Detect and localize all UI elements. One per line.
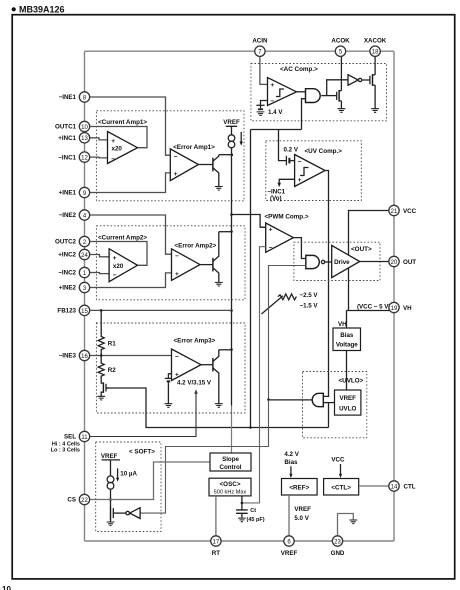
wire VREF terminal bar [226,126,237,135]
svg-text:<Error Amp1>: <Error Amp1> [173,144,215,151]
wire AND second input from UV net [302,99,306,130]
wire UV net feed horizontal [251,129,302,131]
wire XACOK drain [374,56,376,75]
pin 13 +INC1 [58,133,89,143]
op-amp Error Amp2 [172,249,201,281]
pin 8 -INE1 [59,92,90,102]
block REF [282,479,318,496]
resistor R2 [98,356,116,382]
wire Q1 collector to FB node [219,154,232,156]
svg-text:+INC1: +INC1 [58,135,76,142]
op-amp Error Amp1 [170,149,198,181]
svg-text:<OSC>: <OSC> [220,481,241,488]
wire PWM output to NAND [293,238,305,259]
svg-text:Voltage: Voltage [336,342,358,349]
ground Q3 emitter [215,404,223,408]
svg-text:UVLO: UVLO [339,405,356,412]
svg-text:22: 22 [81,498,88,504]
svg-text:(VCC − 5 V): (VCC − 5 V) [357,304,391,311]
pin 9 +INE1 [59,187,90,197]
wire Drive output to OUT pin [360,261,390,263]
wire SEL select arrow [90,393,196,436]
wire pin rail left [84,51,86,541]
svg-text:19: 19 [391,306,398,312]
pin 7 ACIN [252,38,268,57]
resistor slope compensation [262,294,297,314]
wire ramp to PWM - input [242,247,266,503]
wire comparator - input [261,101,268,105]
inverter soft [126,508,140,519]
svg-text:<Error Amp2>: <Error Amp2> [175,242,217,249]
comparator AC Comp [268,78,297,106]
node Q1 collector junction [231,153,234,156]
comparator PWM Comp [266,223,294,252]
svg-text:<Current Amp1>: <Current Amp1> [98,119,147,126]
svg-text:ACOK: ACOK [331,38,350,45]
dashed box Error Amp3 [96,323,245,413]
node UV net junction [249,426,252,429]
svg-text:CTL: CTL [404,483,416,490]
svg-text:−1.5 V: −1.5 V [300,302,319,309]
svg-text:VCC: VCC [331,456,345,463]
ground soft fet [107,522,115,526]
svg-text:1.4 V: 1.4 V [268,109,283,116]
svg-text:<PWM Comp.>: <PWM Comp.> [265,214,309,221]
block OSC [209,478,251,496]
svg-text:15: 15 [81,309,88,315]
svg-text:500 kHz Max: 500 kHz Max [214,490,247,496]
svg-text:ACIN: ACIN [252,38,268,45]
wire VH line to pin 19 [346,310,390,312]
inverter AC [348,75,370,86]
block VREF UVLO [335,390,361,415]
pin 22 CS [67,494,89,504]
svg-text:<REF>: <REF> [289,485,309,492]
buffer Drive [332,245,360,277]
svg-text:VCC: VCC [403,208,417,215]
dashed box UV Comp [266,141,362,201]
arrow -INC1 (Vo) [277,183,281,187]
svg-text:<UV Comp.>: <UV Comp.> [305,148,343,155]
pin 17 RT [211,536,221,557]
svg-text:<CTL>: <CTL> [331,485,351,492]
ground XACOK fet [371,109,379,113]
svg-text:23: 23 [334,539,341,545]
svg-text:5.0 V: 5.0 V [294,515,309,522]
svg-text:−: − [175,253,179,260]
transistor R2 short n-mosfet [101,382,109,397]
wire -INC1 input [90,156,107,159]
svg-text:10 µA: 10 µA [120,470,137,477]
wire FB to PWM + input [232,215,266,228]
pin 23 GND [331,536,345,557]
wire CS to slope control [90,462,210,500]
svg-text:Bias: Bias [340,332,354,339]
wire NAND second input [269,266,306,400]
node R1/R2 junction [100,354,103,357]
wire XACOK source to ground [374,85,376,108]
wire REF to VREF pin [288,495,290,537]
svg-text:R2: R2 [108,367,116,374]
wire UVLO out to soft inverter [140,400,268,514]
svg-text:−INE1: −INE1 [59,94,77,101]
wire -INE1 to Error Amp1 - input [90,97,170,155]
NAND gate drive logic [306,255,320,268]
svg-text:+: + [111,138,115,145]
wire 0.2V battery tap [279,130,287,161]
block Bias Voltage [333,328,361,351]
pin 5 ACOK [331,38,350,57]
AND gate UVLO (left facing) [312,393,323,406]
svg-text:R1: R1 [108,340,116,347]
wire Error Amp1 output to Q1 base [199,164,213,166]
ground Q1 emitter [215,187,223,191]
op-amp Current Amp1 x20 [108,132,138,164]
arrow 4.2V bias into REF [290,466,292,474]
capacitor Ct [236,508,265,523]
svg-text:+INE2: +INE2 [59,285,77,292]
svg-text:16: 16 [81,354,88,360]
svg-text:−INE2: −INE2 [59,212,77,219]
wire UV comp + input from -INC1 [279,179,294,183]
svg-text:SEL: SEL [64,433,76,440]
arrow 10uA direction [117,468,119,478]
svg-text:(45 pF): (45 pF) [247,517,265,523]
block CTL [324,479,359,496]
svg-text:OUTC1: OUTC1 [55,124,77,131]
transistor Q3 [213,350,219,404]
svg-text:Drive: Drive [334,259,350,266]
svg-text:<OUT>: <OUT> [351,246,372,253]
pin 20 OUT [389,256,416,266]
arrow current direction [240,132,242,142]
wire +INE2 to Error Amp2 + input [90,273,171,288]
wire OUTC1 feedback loop [90,127,147,148]
wire UV net to R2 short fet gate [106,388,328,428]
svg-text:−INE3: −INE3 [59,353,77,360]
node ramp junction [241,502,244,505]
svg-text:VREF: VREF [294,506,311,513]
arrow VCC into CTL [340,464,342,474]
svg-text:−2.5 V: −2.5 V [300,292,319,299]
wire FB123 to FB node [90,309,231,311]
wire pin rail top [85,50,395,52]
AND gate AC [306,89,321,103]
wire +INC1 input [90,138,107,140]
transistor XACOK p-mosfet [370,74,375,86]
svg-text:21: 21 [391,209,398,215]
wire ACOK drain [340,56,342,91]
svg-text:24: 24 [81,253,88,259]
wire UVLO gate output [269,399,313,401]
svg-text:<Error Amp3>: <Error Amp3> [174,338,216,345]
wire Bias Voltage to UVLO [346,351,348,391]
current source 10uA [107,476,114,489]
wire CTL to pin 14 [359,485,390,487]
svg-text:<AC Comp.>: <AC Comp.> [280,66,318,73]
wire -INE3 input [90,355,171,357]
ground R2 short fet [97,396,105,400]
svg-text:VREF: VREF [339,395,356,402]
pin 19 VH [389,302,412,312]
wire -INC2 input [90,273,109,274]
svg-text:x20: x20 [113,263,124,270]
pin 2 OUTC2 [55,236,90,246]
wire AND output branch to inverter [327,80,348,96]
svg-text:Bias: Bias [284,459,298,466]
wire UV net riser [250,130,252,428]
pin 1 -INC2 [58,267,89,277]
pin 6 VREF [281,536,298,557]
node CS junction [109,498,112,501]
wire ACOK source to ground [340,101,342,109]
svg-text:14: 14 [391,484,398,490]
svg-text:FB123: FB123 [57,308,76,315]
arrow SEL to 4.2V/3.15V [194,389,198,393]
transistor Q1 [213,155,219,187]
node UVLO out junction [267,398,270,401]
pin 21 VCC [389,205,417,215]
battery 0.2V [286,156,294,165]
pin 4 -INE2 [59,210,90,220]
pin 10 OUTC1 [55,121,90,131]
svg-text:<Current Amp2>: <Current Amp2> [98,235,147,242]
transistor Q2 [213,232,219,283]
svg-text:VREF: VREF [101,453,118,460]
wire VREF UVLO to gate [323,402,334,404]
svg-text:+: + [269,227,273,234]
wire OSC ramp output [241,496,243,510]
svg-text:+INE1: +INE1 [59,190,77,197]
svg-text:13: 13 [81,136,88,142]
svg-text:x20: x20 [112,145,123,152]
resistor R1 [98,310,116,355]
svg-text:10: 10 [81,125,88,131]
svg-text:12: 12 [81,156,88,162]
svg-text:+: + [113,255,117,262]
comparator UV Comp [295,155,326,187]
node FB taps [230,213,233,216]
svg-text:11: 11 [81,435,88,441]
svg-text:+: + [174,171,178,178]
svg-text:Lo : 3 Cells: Lo : 3 Cells [51,448,80,454]
transistor soft discharge n-mosfet [111,506,126,522]
ground Q2 emitter [215,282,223,286]
op-amp Current Amp2 x20 [109,249,137,282]
current source VREF pull-up [228,135,235,148]
svg-text:OUTC2: OUTC2 [55,239,77,246]
wire OUTC2 feedback loop [90,242,147,266]
wire Error Amp3 output to Q3 base [201,364,213,366]
wire +INC2 input [90,255,109,257]
pin 18 XACOK [364,38,387,57]
svg-text:VREF: VREF [223,119,240,126]
svg-text:VH: VH [403,305,412,312]
wire VREF terminal soft [102,460,121,476]
pin 11 SEL [51,431,90,453]
dashed box Current Amp1 / Error Amp1 [96,111,244,201]
svg-text:CS: CS [67,497,76,504]
ground ACOK fet [338,109,346,113]
svg-text:MB39A126: MB39A126 [19,5,65,15]
battery 4.2V/3.15V reference [165,378,172,403]
svg-text:4.2 V: 4.2 V [284,451,299,458]
wire OSC to RT [215,496,217,537]
svg-text:<UVLO>: <UVLO> [339,378,364,385]
svg-text:20: 20 [391,260,398,266]
svg-text:Ct: Ct [250,508,256,514]
svg-text:XACOK: XACOK [364,38,387,45]
svg-text:−: − [111,156,115,163]
dashed box UVLO [303,372,367,438]
pin 3 +INE2 [59,282,90,292]
svg-text:10: 10 [2,585,11,590]
pin 16 -INE3 [59,350,90,360]
svg-text:+INC2: +INC2 [58,252,76,259]
svg-text:Control: Control [220,464,242,471]
svg-text:18: 18 [372,50,379,56]
svg-text:17: 17 [213,539,220,545]
pin 15 FB123 [57,305,89,315]
wire VCC feed [349,211,390,311]
svg-text:VH: VH [338,321,347,328]
svg-text:−INC2: −INC2 [58,270,76,277]
svg-text:−: − [113,272,117,279]
svg-text:−INC1: −INC1 [58,154,76,161]
op-amp Error Amp3 [172,349,202,381]
title bullet [12,7,16,11]
svg-text:Slope: Slope [222,456,239,463]
svg-text:0.2 V: 0.2 V [284,147,299,154]
wire pin rail bottom [85,540,395,542]
wire pin rail right [393,51,395,541]
node R1 top junction [100,309,103,312]
svg-text:−: − [298,159,302,166]
svg-text:Hi : 4 Cells: Hi : 4 Cells [52,441,80,447]
wire VH riser [346,311,348,329]
svg-text:−: − [174,154,178,161]
svg-text:+: + [175,372,179,379]
wire current source to CS node [110,489,112,506]
ground Ct [238,518,246,522]
dashed box SOFT [96,442,161,532]
wire Q3 collector to FB node [219,349,232,351]
svg-text:RT: RT [212,550,220,557]
svg-text:GND: GND [331,550,345,557]
ground GND symbol [349,520,357,524]
battery 1.4V reference [256,105,264,115]
dashed box AC Comp [251,64,387,121]
block Slope Control [210,453,251,471]
svg-text:−: − [270,98,274,105]
svg-text:4.2 V/3.15 V: 4.2 V/3.15 V [177,379,212,386]
pin 12 -INC1 [58,152,89,162]
pin 24 +INC2 [58,249,89,259]
dashed box Current Amp2 / Error Amp2 [96,226,245,300]
wire UV comp output down [323,171,328,397]
svg-text:VREF: VREF [281,550,298,557]
wire Error Amp2 output to Q2 base [200,264,213,266]
wire FB main vertical [231,148,233,406]
pin 14 CTL [389,481,416,491]
wire +INE1 to Error Amp1 + input [90,173,170,193]
wire ACIN to comparator + [260,56,268,84]
wire Error Amp3 + input to reference [168,374,171,378]
wire comparator output to AND [297,91,306,93]
wire NAND to Drive [325,261,332,263]
svg-text:−: − [269,245,273,252]
dashed box OUT [294,242,380,280]
svg-text:OUT: OUT [403,259,416,266]
wire GND pin to ground [338,514,354,537]
svg-text:+: + [298,177,302,184]
wire Q2 collector to FB node [219,231,232,233]
wire -INE2 to Error Amp2 - input [90,215,171,254]
transistor ACOK n-mosfet [337,90,342,102]
svg-text:< SOFT>: < SOFT> [129,449,155,456]
svg-text:+: + [175,271,179,278]
svg-text:+: + [270,82,274,89]
svg-text:(Vo): (Vo) [270,195,282,202]
wire AND output to ACOK fet gate [321,95,336,97]
svg-text:−: − [175,354,179,361]
ground 4.2V reference [165,404,173,408]
